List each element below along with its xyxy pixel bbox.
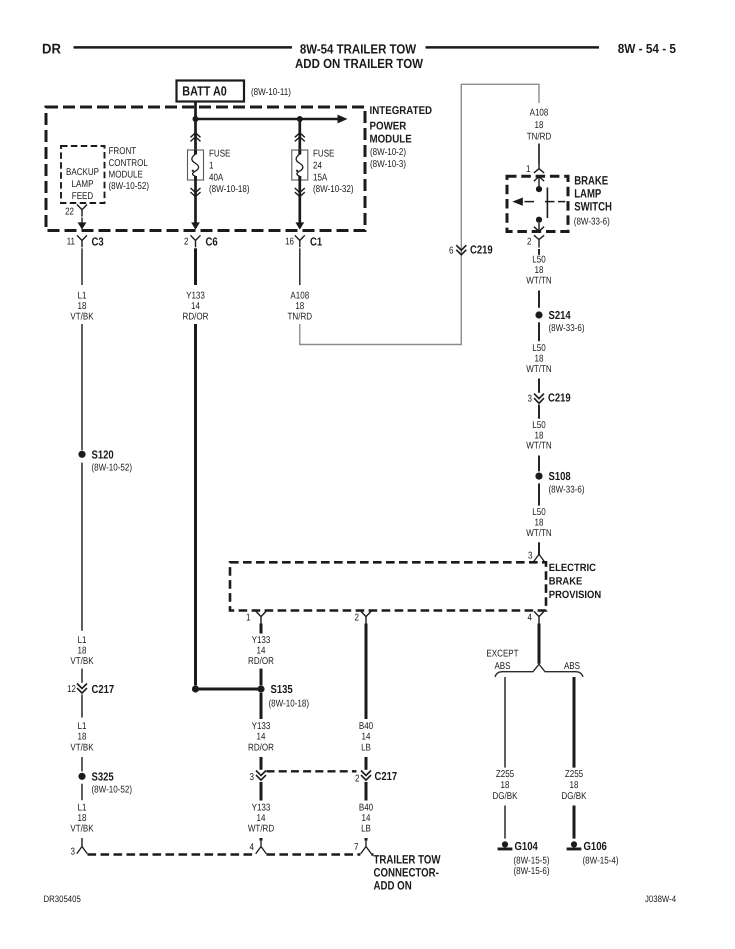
svg-text:Y133: Y133 xyxy=(252,803,271,814)
wire B40 segment 1 xyxy=(365,623,368,719)
splice S214 xyxy=(535,309,584,334)
svg-text:RD/OR: RD/OR xyxy=(183,312,209,323)
wire A108 segment 2 xyxy=(538,144,540,164)
wire B40 segment 2 xyxy=(365,757,368,770)
arrowhead backup lamp wire at IPM border xyxy=(78,222,87,229)
svg-text:1: 1 xyxy=(246,612,251,623)
svg-text:TRAILER TOW: TRAILER TOW xyxy=(374,852,441,866)
svg-text:14: 14 xyxy=(257,813,266,824)
svg-text:1: 1 xyxy=(209,160,214,171)
label L1 18 VT/BK (1) xyxy=(70,291,94,323)
label Z255 18 DG/BK (2) xyxy=(562,769,587,802)
wire Y133/WT-RD segment 5 xyxy=(260,782,263,801)
connector pin 22 Y xyxy=(77,205,87,217)
connector C1 xyxy=(285,235,323,248)
battery feed box BATT A0 xyxy=(177,81,245,102)
wire pin 22 to IPM border xyxy=(81,218,83,223)
svg-text:18: 18 xyxy=(535,354,544,365)
svg-text:MODULE: MODULE xyxy=(370,134,413,146)
svg-text:3: 3 xyxy=(71,847,76,858)
wire fuse 1 to C6 xyxy=(194,180,197,228)
svg-text:INTEGRATED: INTEGRATED xyxy=(370,105,433,117)
wire L50 segment 6 xyxy=(538,456,540,472)
svg-text:(8W-33-6): (8W-33-6) xyxy=(549,484,585,495)
svg-text:2: 2 xyxy=(527,236,532,247)
svg-text:ADD ON TRAILER TOW: ADD ON TRAILER TOW xyxy=(295,56,423,71)
svg-text:4: 4 xyxy=(528,612,533,623)
svg-text:S135: S135 xyxy=(271,683,294,696)
connector C217 dashed link xyxy=(267,770,357,772)
trailer tow connector dashed bus xyxy=(88,853,374,855)
svg-text:2: 2 xyxy=(355,774,360,785)
splice S120 xyxy=(78,448,132,473)
wire L1 segment 5 xyxy=(81,695,83,718)
svg-text:18: 18 xyxy=(78,813,87,824)
svg-text:15A: 15A xyxy=(313,172,328,183)
connector C3 xyxy=(67,235,104,248)
label ELECTRIC BRAKE PROVISION xyxy=(549,562,601,601)
wire L1 segment 8 xyxy=(81,838,83,848)
svg-text:18: 18 xyxy=(535,517,544,528)
brake lamp switch contact lower xyxy=(534,217,544,232)
electric brake pin 2 xyxy=(355,611,372,623)
svg-text:S214: S214 xyxy=(549,309,572,322)
svg-text:WT/TN: WT/TN xyxy=(526,528,551,539)
svg-text:C6: C6 xyxy=(206,236,219,249)
svg-text:(8W-15-5): (8W-15-5) xyxy=(514,855,550,866)
svg-text:WT/TN: WT/TN xyxy=(526,275,551,286)
svg-text:C1: C1 xyxy=(310,236,323,249)
svg-text:ABS: ABS xyxy=(564,661,580,672)
wire Z255 except-abs segment 1 xyxy=(504,677,506,768)
svg-text:VT/BK: VT/BK xyxy=(70,312,94,323)
svg-text:L1: L1 xyxy=(78,291,87,302)
svg-text:WT/TN: WT/TN xyxy=(526,364,551,375)
svg-text:FEED: FEED xyxy=(72,191,93,202)
svg-text:FRONT: FRONT xyxy=(109,146,137,157)
svg-text:LAMP: LAMP xyxy=(574,186,601,200)
connector C217 pin 12 xyxy=(67,683,114,696)
wire L50 segment 7 xyxy=(538,483,540,505)
junction dot at fuse 1 feed xyxy=(193,116,199,122)
arrowhead fuse 1 wire at IPM border xyxy=(191,222,200,229)
wire electric brake pin 4 xyxy=(538,623,541,663)
svg-text:FUSE: FUSE xyxy=(209,149,231,160)
label L50 18 WT/TN (1) xyxy=(526,255,551,287)
svg-text:(8W-10-18): (8W-10-18) xyxy=(269,698,310,709)
svg-text:1: 1 xyxy=(526,164,531,175)
svg-text:ELECTRIC: ELECTRIC xyxy=(549,562,597,574)
wire fuse 24 to C1 xyxy=(298,180,301,228)
svg-text:Z255: Z255 xyxy=(565,769,584,780)
wire L50 segment 2 xyxy=(538,291,540,308)
svg-text:3: 3 xyxy=(250,772,255,783)
svg-text:WT/TN: WT/TN xyxy=(526,441,551,452)
svg-text:TN/RD: TN/RD xyxy=(288,312,313,323)
svg-text:C3: C3 xyxy=(92,236,105,249)
svg-text:(8W-10-11): (8W-10-11) xyxy=(251,87,291,98)
label B40 14 LB (1) xyxy=(359,721,374,753)
svg-text:TN/RD: TN/RD xyxy=(527,131,552,142)
wire Y133 from C6 segment 2 xyxy=(194,324,197,685)
connector C219 pin 6 xyxy=(449,244,493,257)
svg-text:VT/BK: VT/BK xyxy=(70,742,94,753)
svg-text:L1: L1 xyxy=(78,721,87,732)
wire Z255 abs segment 2 xyxy=(573,806,576,839)
brake lamp switch plunger bar xyxy=(546,188,548,219)
label L50 18 WT/TN (4) xyxy=(526,507,551,539)
svg-text:Y133: Y133 xyxy=(252,721,271,732)
svg-text:40A: 40A xyxy=(209,172,224,183)
wire Y133/WT-RD segment 6 xyxy=(260,838,263,841)
svg-text:8W - 54 - 5: 8W - 54 - 5 xyxy=(618,41,676,56)
svg-text:18: 18 xyxy=(78,732,87,743)
svg-text:DR: DR xyxy=(42,42,61,58)
wire IPM bus with arrow xyxy=(196,115,348,124)
integrated power module dashed box xyxy=(46,107,365,231)
wire BATT A0 to bus xyxy=(194,102,197,120)
svg-text:(8W-15-6): (8W-15-6) xyxy=(514,866,550,877)
svg-text:G106: G106 xyxy=(584,840,608,853)
wire Z255 abs segment 1 xyxy=(573,677,576,768)
svg-text:(8W-10-18): (8W-10-18) xyxy=(209,184,250,195)
splice S325 xyxy=(78,770,132,795)
svg-text:Y133: Y133 xyxy=(186,291,205,302)
svg-text:SWITCH: SWITCH xyxy=(574,200,612,214)
svg-text:12: 12 xyxy=(67,684,76,695)
svg-text:4: 4 xyxy=(250,842,255,853)
fuse F1 xyxy=(188,150,204,180)
ground G104 xyxy=(498,840,550,877)
label A108 18 TN/RD (1) xyxy=(288,291,313,323)
svg-text:EXCEPT: EXCEPT xyxy=(486,649,518,660)
svg-text:ABS: ABS xyxy=(494,661,510,672)
wire Y133 pin1 segment 2 xyxy=(260,669,263,686)
svg-text:(8W-10-32): (8W-10-32) xyxy=(313,184,354,195)
label L50 18 WT/TN (3) xyxy=(526,420,551,452)
svg-text:RD/OR: RD/OR xyxy=(248,742,274,753)
label Y133 14 RD/OR (2) xyxy=(248,635,274,667)
wire A108 segment 1 xyxy=(299,248,301,285)
front control module backup lamp feed box xyxy=(61,146,105,203)
trailer tow pin 7 Y xyxy=(361,839,372,854)
label L1 18 VT/BK (3) xyxy=(70,721,94,753)
svg-text:14: 14 xyxy=(257,732,266,743)
svg-text:18: 18 xyxy=(78,301,87,312)
wire L1 segment 6 xyxy=(81,757,83,771)
svg-text:3: 3 xyxy=(528,393,533,404)
svg-text:LB: LB xyxy=(361,824,371,835)
svg-text:2: 2 xyxy=(184,236,189,247)
junction dot at fuse 24 feed xyxy=(297,116,303,122)
svg-text:L1: L1 xyxy=(78,635,87,646)
svg-text:B40: B40 xyxy=(359,721,374,732)
svg-text:18: 18 xyxy=(78,646,87,657)
svg-text:RD/OR: RD/OR xyxy=(248,656,274,667)
electric brake pin 3 Y xyxy=(534,549,545,562)
svg-text:24: 24 xyxy=(313,160,322,171)
wire A108 routing (gray) xyxy=(300,84,539,344)
svg-text:LAMP: LAMP xyxy=(72,179,94,190)
svg-text:14: 14 xyxy=(362,732,371,743)
svg-text:S325: S325 xyxy=(92,770,115,783)
label Y133 14 WT/RD xyxy=(248,803,274,835)
wire bus to fuse 24 xyxy=(298,119,301,150)
svg-text:14: 14 xyxy=(362,813,371,824)
wire Y133 pin1 segment 1 xyxy=(260,623,263,633)
svg-text:MODULE: MODULE xyxy=(109,170,144,181)
splice S108 xyxy=(535,470,584,495)
svg-text:(8W-10-2): (8W-10-2) xyxy=(370,147,406,158)
label EXCEPT ABS xyxy=(486,649,518,672)
svg-text:18: 18 xyxy=(535,265,544,276)
option split brace xyxy=(495,664,583,677)
splice S135 xyxy=(192,683,309,709)
svg-text:DG/BK: DG/BK xyxy=(493,791,518,802)
page chevrons above fuse 1 xyxy=(191,133,201,142)
wire L50 segment 1 xyxy=(538,249,540,255)
svg-text:(8W-10-52): (8W-10-52) xyxy=(92,785,133,796)
connector C6 xyxy=(184,235,218,248)
label FUSE 24 15A xyxy=(313,149,354,195)
svg-text:(8W-33-6): (8W-33-6) xyxy=(574,216,610,227)
svg-text:18: 18 xyxy=(570,780,579,791)
header rule left xyxy=(74,46,293,49)
svg-text:(8W-10-52): (8W-10-52) xyxy=(92,463,133,474)
wire Y133 from C6 segment 1 xyxy=(194,248,197,285)
wire L50 segment 5 xyxy=(538,405,540,419)
wire L1 segment 7 xyxy=(81,784,83,801)
svg-text:S120: S120 xyxy=(92,448,114,461)
svg-text:BRAKE: BRAKE xyxy=(549,576,583,588)
svg-text:8W-54 TRAILER TOW: 8W-54 TRAILER TOW xyxy=(300,41,417,56)
wire Y133 pin1 segment 3 xyxy=(260,693,263,719)
brake lamp switch pin 1 xyxy=(526,144,544,176)
wire L50 segment 8 xyxy=(538,542,540,555)
label INTEGRATED POWER MODULE xyxy=(370,105,433,170)
header rule right xyxy=(426,46,600,49)
svg-text:WT/RD: WT/RD xyxy=(248,824,274,835)
svg-text:C217: C217 xyxy=(92,683,115,696)
svg-text:7: 7 xyxy=(354,842,359,853)
label TRAILER TOW CONNECTOR ADD ON xyxy=(374,852,441,892)
trailer tow pin 3 Y xyxy=(77,847,88,854)
svg-text:11: 11 xyxy=(67,236,75,247)
svg-text:18: 18 xyxy=(535,430,544,441)
svg-text:L1: L1 xyxy=(78,803,87,814)
svg-text:G104: G104 xyxy=(515,840,539,853)
svg-text:L50: L50 xyxy=(532,420,546,431)
svg-text:Z255: Z255 xyxy=(496,769,515,780)
page chevrons below fuse 1 xyxy=(191,188,201,197)
svg-text:(8W-33-6): (8W-33-6) xyxy=(549,323,585,334)
svg-text:2: 2 xyxy=(355,612,360,623)
electric brake pin 4 xyxy=(528,611,545,623)
arrowhead fuse 24 wire at IPM border xyxy=(295,222,304,229)
svg-text:3: 3 xyxy=(528,551,533,562)
label Y133 14 RD/OR (1) xyxy=(183,291,209,323)
svg-text:6: 6 xyxy=(449,245,454,256)
svg-text:PROVISION: PROVISION xyxy=(549,589,601,601)
svg-text:(8W-15-4): (8W-15-4) xyxy=(583,855,619,866)
label A108 18 TN/RD (2) xyxy=(527,108,552,143)
connector C219 pin 3 xyxy=(528,392,572,405)
brake lamp switch contact upper xyxy=(534,176,544,192)
svg-text:(8W-10-3): (8W-10-3) xyxy=(370,159,406,170)
fuse F24 xyxy=(292,150,308,180)
svg-text:14: 14 xyxy=(257,646,266,657)
svg-text:22: 22 xyxy=(65,207,74,218)
svg-text:(8W-10-52): (8W-10-52) xyxy=(109,181,150,192)
page chevrons below fuse 24 xyxy=(295,188,305,197)
wire L1 segment 2 xyxy=(81,324,83,450)
svg-text:VT/BK: VT/BK xyxy=(70,656,94,667)
wire L50 segment 4 xyxy=(538,379,540,393)
label FUSE 1 40A xyxy=(209,149,250,195)
wire L1 segment 3 xyxy=(81,463,83,631)
svg-text:A108: A108 xyxy=(290,291,309,302)
label BRAKE LAMP SWITCH xyxy=(574,174,612,228)
brake lamp switch box xyxy=(507,176,568,231)
svg-text:POWER: POWER xyxy=(370,120,407,132)
label L1 18 VT/BK (2) xyxy=(70,635,94,667)
svg-text:16: 16 xyxy=(285,236,294,247)
svg-text:LB: LB xyxy=(361,742,371,753)
label L1 18 VT/BK (4) xyxy=(70,803,94,835)
wire L50 segment 3 xyxy=(538,322,540,341)
svg-text:J038W-4: J038W-4 xyxy=(645,894,676,904)
label FRONT CONTROL MODULE xyxy=(109,146,150,192)
svg-text:L50: L50 xyxy=(532,255,546,266)
svg-text:DG/BK: DG/BK xyxy=(562,791,587,802)
label Y133 14 RD/OR (3) xyxy=(248,721,274,753)
svg-text:L50: L50 xyxy=(532,507,546,518)
svg-text:ADD ON: ADD ON xyxy=(374,878,412,892)
svg-text:C219: C219 xyxy=(470,244,493,257)
svg-text:A108: A108 xyxy=(530,108,549,119)
wire Y133 pin1 segment 4 xyxy=(260,757,263,770)
wire B40 segment 3 xyxy=(365,782,368,801)
label Z255 18 DG/BK (1) xyxy=(493,769,518,802)
svg-text:CONNECTOR-: CONNECTOR- xyxy=(374,865,439,879)
connector C217 pin 3 xyxy=(250,771,267,783)
svg-text:S108: S108 xyxy=(549,470,572,483)
trailer tow pin 4 Y xyxy=(256,839,267,854)
wire L1 segment 4 xyxy=(81,669,83,683)
wire Z255 except-abs segment 2 xyxy=(504,806,506,839)
svg-text:FUSE: FUSE xyxy=(313,149,335,160)
svg-text:BATT A0: BATT A0 xyxy=(182,84,227,99)
wire bus to fuse 1 xyxy=(194,119,197,150)
svg-text:Y133: Y133 xyxy=(252,635,271,646)
svg-text:L50: L50 xyxy=(532,343,546,354)
page chevrons above fuse 24 xyxy=(295,133,305,142)
svg-text:14: 14 xyxy=(191,301,200,312)
svg-text:DR305405: DR305405 xyxy=(44,894,81,904)
connector C217 pin 2 xyxy=(355,770,397,785)
svg-text:18: 18 xyxy=(535,120,544,131)
brake lamp switch pin 2 xyxy=(527,235,544,247)
wire B40 segment 4 xyxy=(365,838,368,841)
svg-text:C217: C217 xyxy=(375,770,398,783)
ground G106 xyxy=(567,840,619,867)
svg-text:C219: C219 xyxy=(548,392,571,405)
svg-text:18: 18 xyxy=(501,780,510,791)
svg-text:B40: B40 xyxy=(359,803,374,814)
brake lamp switch actuator dashed arrow xyxy=(512,198,565,206)
electric brake pin 1 xyxy=(246,611,266,623)
svg-text:18: 18 xyxy=(295,301,304,312)
svg-text:BACKUP: BACKUP xyxy=(66,167,99,178)
label B40 14 LB (2) xyxy=(359,803,374,835)
label L50 18 WT/TN (2) xyxy=(526,343,551,375)
svg-text:VT/BK: VT/BK xyxy=(70,824,94,835)
electric brake provision dashed box xyxy=(230,562,546,610)
wire L1 segment 1 xyxy=(81,248,83,285)
svg-text:CONTROL: CONTROL xyxy=(109,158,149,169)
